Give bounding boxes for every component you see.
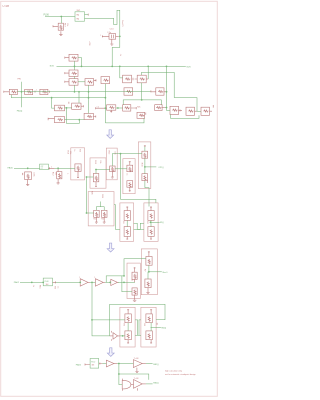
svg-text:1: 1	[95, 80, 96, 82]
svg-text:PA2(): PA2()	[153, 381, 159, 384]
svg-text:R4: R4	[143, 324, 145, 327]
svg-text:high calculator only: high calculator only	[165, 369, 182, 372]
svg-text:10k: 10k	[99, 160, 101, 163]
svg-text:C10: C10	[110, 28, 115, 30]
svg-text:R22: R22	[108, 151, 110, 155]
svg-text:1: 1	[94, 277, 95, 279]
svg-text:1k: 1k	[32, 285, 34, 287]
svg-text:R1: R1	[122, 221, 124, 224]
svg-text:T+08: T+08	[134, 378, 139, 380]
svg-text:PA(: PA(	[76, 17, 79, 20]
svg-text:PA1(): PA1()	[153, 363, 159, 366]
svg-text:1k: 1k	[119, 54, 121, 56]
svg-text:R45: R45	[91, 191, 93, 196]
svg-text:R15: R15	[66, 151, 68, 156]
svg-text:PA1(): PA1()	[161, 326, 166, 329]
svg-text:R49: R49	[101, 194, 103, 197]
svg-text:BUS: BUS	[50, 66, 55, 68]
svg-text:10k: 10k	[66, 23, 68, 26]
svg-text:not for automatic standpoint d: not for automatic standpoint design	[165, 373, 196, 376]
svg-text:PL06: PL06	[44, 15, 50, 17]
svg-text:R1(): R1()	[160, 222, 164, 224]
svg-text:PA06: PA06	[8, 167, 14, 170]
svg-text:1: 1	[22, 174, 23, 176]
svg-text:Bus1: Bus1	[163, 272, 169, 274]
svg-text:R51: R51	[101, 219, 104, 221]
svg-text:1k: 1k	[56, 286, 58, 288]
svg-text:RV7: RV7	[64, 23, 66, 27]
svg-text:SW1: SW1	[77, 10, 81, 12]
svg-text:R50: R50	[93, 219, 96, 221]
svg-text:PR1: PR1	[18, 78, 22, 80]
svg-text:10k: 10k	[113, 151, 115, 154]
svg-text:PA1(): PA1()	[17, 110, 23, 113]
svg-text:R9: R9	[79, 149, 81, 152]
svg-text:1: 1	[66, 173, 68, 174]
svg-text:PA05: PA05	[76, 364, 82, 367]
svg-text:Net-C1: Net-C1	[121, 20, 124, 26]
svg-text:BUS: BUS	[187, 66, 192, 68]
svg-text:R7: R7	[144, 269, 146, 272]
svg-text:1k: 1k	[125, 173, 127, 175]
svg-text:R51: R51	[38, 285, 40, 289]
svg-text:PL10: PL10	[91, 361, 95, 363]
svg-text:R2k: R2k	[137, 107, 140, 109]
svg-text:T+08: T+08	[134, 358, 139, 360]
svg-text:PA02: PA02	[14, 281, 20, 284]
svg-text:PL08: PL08	[45, 281, 49, 283]
svg-text:OP: OP	[41, 166, 44, 168]
svg-text:3k8: 3k8	[46, 284, 49, 286]
svg-text:10k: 10k	[69, 151, 71, 154]
svg-text:R30: R30	[140, 163, 142, 168]
svg-text:1 2: 1 2	[97, 106, 99, 108]
svg-text:1: 1	[79, 277, 80, 279]
svg-text:1k: 1k	[73, 149, 75, 151]
svg-text:1: 1	[51, 166, 52, 168]
svg-text:1k: 1k	[130, 279, 132, 281]
svg-text:1: 1	[100, 35, 101, 37]
svg-text:1: 1	[36, 89, 37, 91]
svg-text:100k: 100k	[32, 172, 34, 176]
svg-text:10k: 10k	[54, 172, 56, 175]
svg-text:R2: R2	[122, 324, 124, 327]
svg-text:R5: R5	[54, 286, 56, 289]
svg-text:3k8: 3k8	[92, 365, 95, 367]
svg-text:R3: R3	[146, 221, 148, 224]
svg-text:07: 07	[41, 168, 43, 170]
svg-text:R12: R12	[52, 172, 54, 176]
svg-text:+15V: +15V	[88, 41, 90, 46]
svg-text:U 3/8: U 3/8	[3, 4, 10, 8]
svg-text:OP1(): OP1()	[158, 167, 164, 169]
svg-text:PA(: PA(	[76, 13, 79, 16]
svg-text:2.2n: 2.2n	[107, 32, 111, 34]
svg-text:R18: R18	[94, 160, 96, 165]
